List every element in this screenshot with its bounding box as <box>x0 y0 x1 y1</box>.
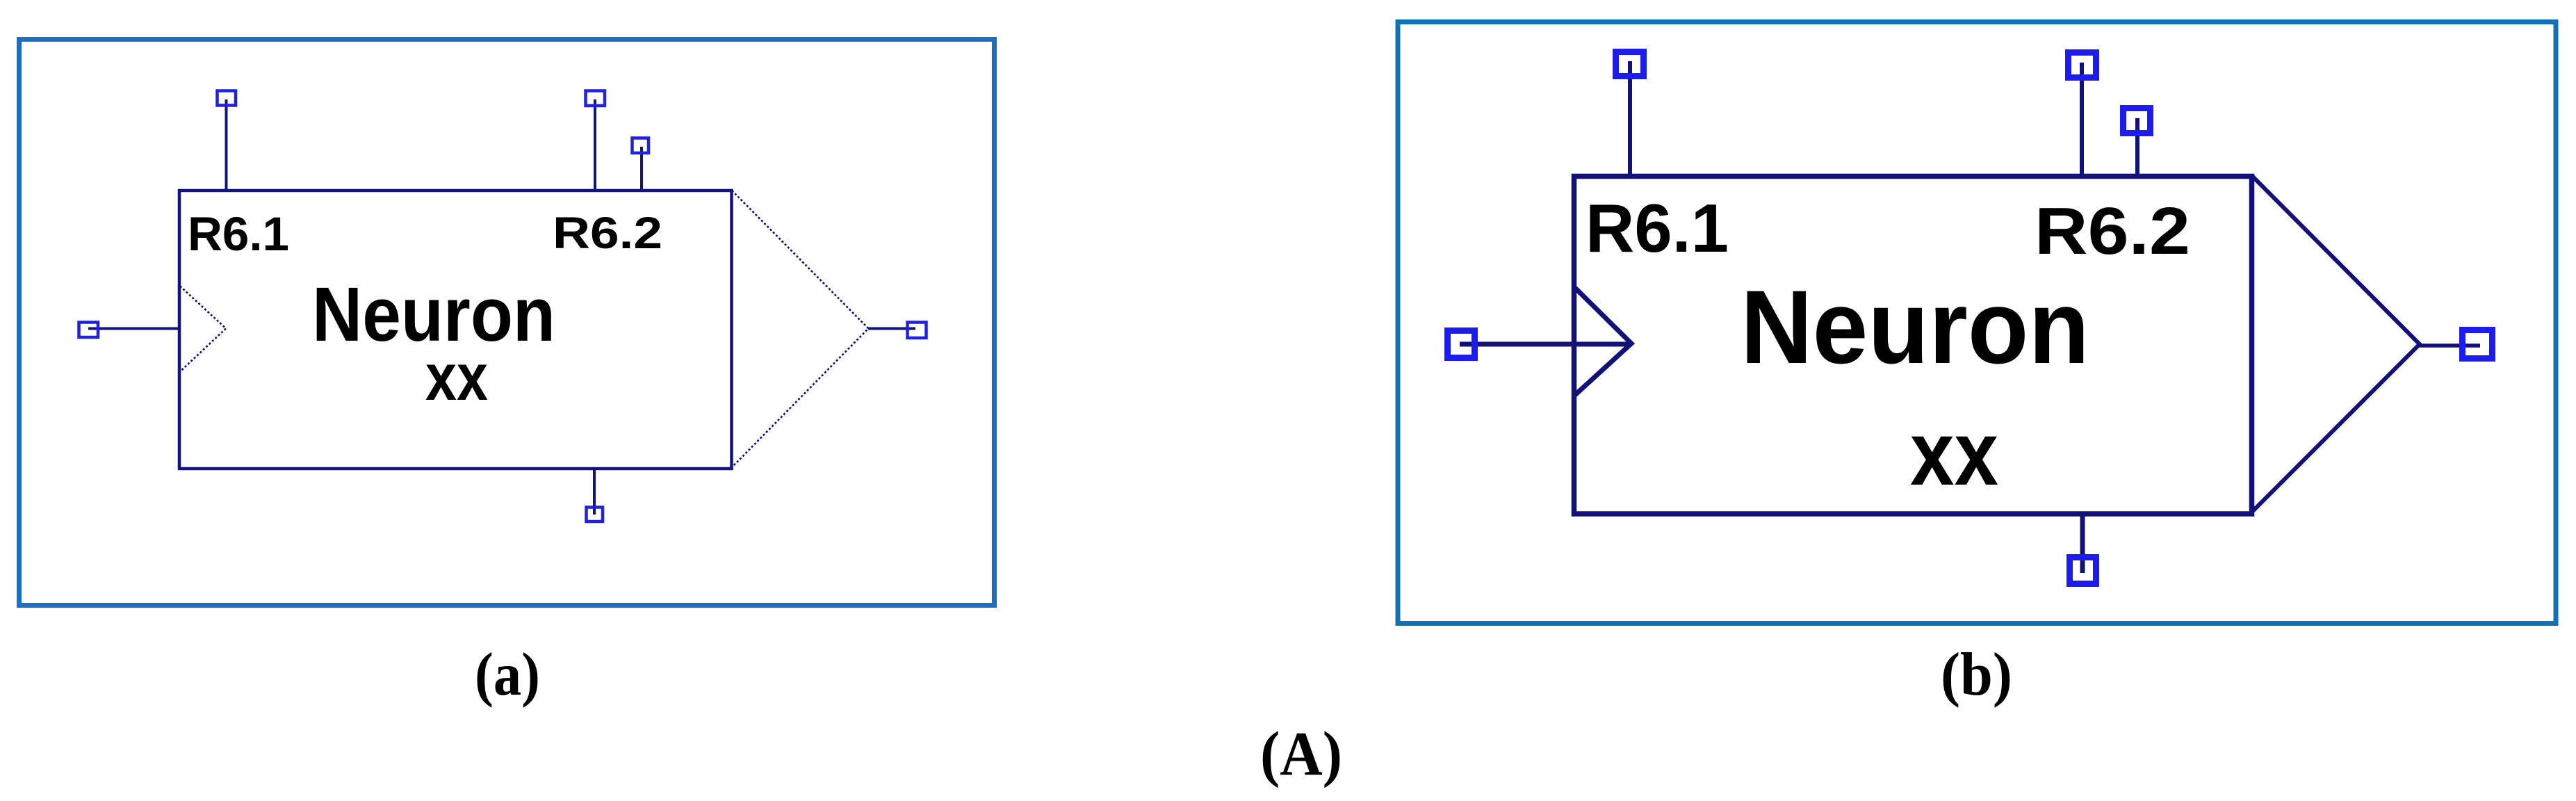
terminal square T3 <box>633 138 649 154</box>
svg-text:(b): (b) <box>1941 641 2012 709</box>
panel (a) border frame <box>19 40 995 606</box>
block body rectangle <box>1574 177 2252 515</box>
output triangle (dotted) <box>732 191 868 467</box>
output triangle <box>2252 176 2420 512</box>
terminal square T2 <box>586 91 605 106</box>
block body rectangle <box>179 191 732 469</box>
panel (b) border frame <box>1398 22 2556 624</box>
pin wire P1 top-left <box>1628 61 1632 175</box>
pin wire P5 output <box>2420 343 2480 348</box>
pin wire P6 bottom <box>2080 515 2085 573</box>
pin wire P5 output <box>868 327 915 330</box>
pin wire P2 top long <box>594 99 596 189</box>
input chevron (dotted) <box>180 286 226 372</box>
terminal square T2 <box>2069 53 2096 78</box>
svg-text:xx: xx <box>1910 402 1998 504</box>
pin wire P2 top long <box>2080 63 2084 175</box>
terminal square T4 input <box>79 323 99 338</box>
neuron block symbol U-b body <box>1460 61 2480 573</box>
svg-text:R6.2: R6.2 <box>553 208 662 258</box>
svg-text:xx: xx <box>425 340 488 414</box>
pin wire P4 input <box>1460 342 1631 347</box>
terminal square T1 <box>218 91 236 106</box>
svg-text:R6.1: R6.1 <box>1585 190 1729 266</box>
terminal square T5 output <box>2463 330 2493 359</box>
terminal square T6 bottom <box>587 508 603 522</box>
svg-text:R6.2: R6.2 <box>2035 194 2190 268</box>
pin wire P3 top short <box>640 147 643 189</box>
neuron block symbol U-a body <box>88 99 915 515</box>
svg-text:(A): (A) <box>1260 720 1342 788</box>
pin wire P4 input <box>88 327 178 330</box>
terminal square T1 <box>1616 52 1644 76</box>
terminal square T6 bottom <box>2070 558 2096 584</box>
pin terminal squares panel a <box>79 91 927 522</box>
terminal square T5 output <box>908 323 927 339</box>
svg-text:(a): (a) <box>475 641 540 709</box>
terminal square T3 <box>2123 108 2151 133</box>
svg-text:R6.1: R6.1 <box>188 207 289 261</box>
pin wire P3 top short <box>2135 118 2139 175</box>
input chevron <box>1575 288 1631 395</box>
terminal square T4 input <box>1448 331 1475 358</box>
svg-text:Neuron: Neuron <box>1741 268 2089 385</box>
pin wire P6 bottom <box>593 469 596 515</box>
pin wire P1 top-left <box>225 99 228 189</box>
pin terminal squares panel b <box>1448 52 2493 584</box>
